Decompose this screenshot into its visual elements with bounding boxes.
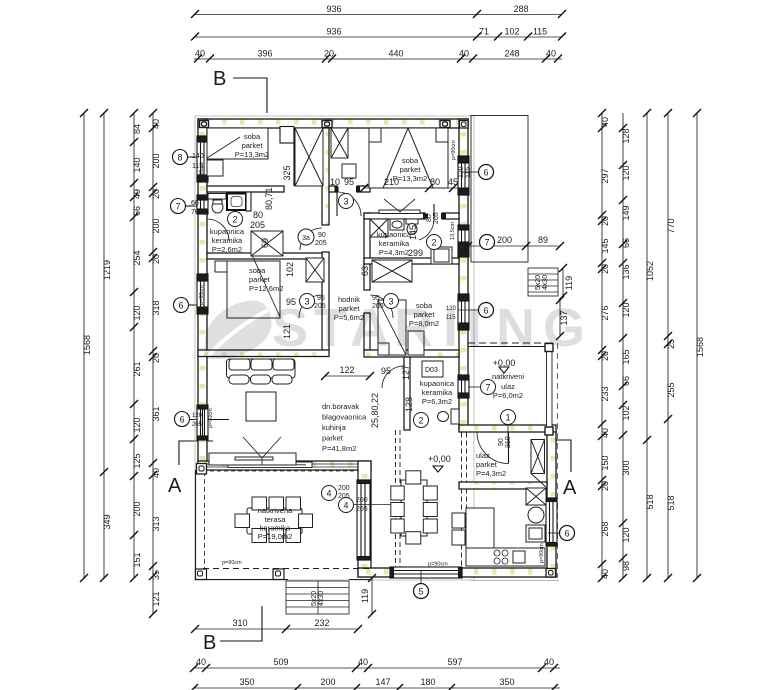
- svg-text:20: 20: [151, 189, 161, 199]
- wall soba3 bottom: [364, 350, 459, 357]
- svg-text:95: 95: [344, 177, 354, 187]
- svg-text:102: 102: [621, 405, 631, 420]
- svg-text:310: 310: [232, 618, 247, 628]
- nightstand soba12.6: [215, 261, 227, 272]
- svg-text:R: R: [394, 298, 433, 358]
- corner post top-right: [460, 121, 469, 129]
- svg-text:313: 313: [151, 516, 161, 531]
- svg-text:440: 440: [388, 49, 403, 59]
- dim row 350+200+147+180+350: [194, 687, 560, 689]
- window left W1: [197, 136, 208, 182]
- svg-text:parket: parket: [322, 434, 344, 443]
- svg-text:200: 200: [320, 677, 335, 687]
- svg-text:P=12,6m2: P=12,6m2: [249, 284, 283, 293]
- svg-text:40: 40: [151, 119, 161, 129]
- svg-text:232: 232: [314, 618, 329, 628]
- svg-text:120: 120: [621, 302, 631, 317]
- svg-text:ulaz: ulaz: [501, 382, 515, 391]
- wall bathroom2 bottom: [364, 258, 459, 264]
- svg-text:8: 8: [177, 153, 182, 163]
- dim row2 line 936+71+102+115: [194, 36, 562, 38]
- svg-text:120: 120: [132, 305, 142, 320]
- circle 2 bath1: [228, 212, 243, 227]
- dashed ceiling line dining: [395, 430, 397, 567]
- svg-text:3: 3: [343, 197, 348, 207]
- right chain col E 1568: [696, 113, 698, 578]
- svg-text:80: 80: [430, 177, 440, 187]
- dim 310+232: [195, 628, 358, 630]
- circle 4 pair with dims: [322, 486, 337, 501]
- svg-text:125: 125: [132, 453, 142, 468]
- svg-text:A: A: [168, 475, 182, 497]
- svg-text:145: 145: [600, 238, 610, 253]
- dim row3 line 40+396+20+440+40+248+40: [194, 58, 562, 60]
- window kitchen right: [546, 498, 557, 546]
- svg-text:66: 66: [191, 200, 199, 207]
- svg-text:115: 115: [192, 163, 203, 170]
- svg-text:1219: 1219: [102, 260, 112, 280]
- wardrobe X room2: [331, 128, 348, 158]
- svg-text:5x20: 5x20: [535, 275, 542, 290]
- dim 137 right: [556, 296, 564, 340]
- porch right thin wall: [547, 343, 553, 433]
- svg-text:349: 349: [102, 514, 112, 529]
- entry door arc: [477, 432, 509, 464]
- svg-text:261: 261: [132, 361, 142, 376]
- svg-text:kupaonica: kupaonica: [377, 230, 412, 239]
- circle 3 low-left: [300, 294, 315, 309]
- right chain col B segments: [622, 113, 624, 578]
- front door in right wall to porch: [458, 375, 469, 398]
- svg-text:P=6,0m2: P=6,0m2: [493, 391, 523, 400]
- svg-text:102: 102: [285, 262, 295, 277]
- svg-text:288: 288: [513, 4, 528, 14]
- svg-text:40: 40: [151, 468, 161, 478]
- svg-text:325: 325: [282, 165, 292, 180]
- svg-text:p=90cm: p=90cm: [199, 285, 205, 305]
- circle 1 porch: [501, 410, 516, 425]
- svg-text:597: 597: [447, 657, 462, 667]
- svg-text:P=4,3m2: P=4,3m2: [476, 469, 506, 478]
- svg-text:89: 89: [538, 235, 548, 245]
- svg-text:P=2,6m2: P=2,6m2: [212, 245, 242, 254]
- svg-text:3: 3: [388, 297, 393, 307]
- svg-text:25,80,22: 25,80,22: [370, 393, 380, 428]
- svg-text:76: 76: [191, 209, 199, 216]
- svg-text:205: 205: [192, 422, 203, 428]
- wall bath1-closet bottom: [207, 253, 322, 259]
- door 3a arc: [300, 228, 322, 250]
- svg-text:128: 128: [621, 128, 631, 143]
- wardrobe X soba12.6: [306, 258, 324, 282]
- wall soba12.6 bottom / living top: [198, 350, 329, 357]
- svg-text:80: 80: [253, 210, 263, 220]
- sink bath2: [390, 219, 404, 230]
- left chain segments col4: [152, 113, 154, 614]
- svg-text:P=41,8m2: P=41,8m2: [322, 444, 356, 453]
- terrace bottom slab edge: [203, 568, 371, 570]
- wall hodnik right vertical: [364, 213, 370, 290]
- svg-text:120: 120: [621, 165, 631, 180]
- toilet bath2: [406, 219, 418, 224]
- svg-text:20: 20: [600, 264, 610, 274]
- svg-text:6: 6: [483, 168, 488, 178]
- dining south window: [390, 567, 462, 578]
- svg-text:S: S: [272, 298, 308, 358]
- svg-text:+0,00: +0,00: [428, 454, 451, 464]
- corner post top-right: [440, 121, 450, 128]
- svg-text:115: 115: [533, 27, 547, 37]
- circle 3 door room2: [339, 194, 354, 209]
- svg-text:parket: parket: [249, 275, 271, 284]
- svg-text:254: 254: [132, 250, 142, 265]
- wardrobe X room1: [295, 128, 323, 186]
- svg-text:soba: soba: [244, 132, 261, 141]
- svg-text:127: 127: [401, 365, 411, 380]
- svg-text:151: 151: [132, 552, 142, 567]
- svg-text:119: 119: [564, 276, 574, 290]
- circle 7 porch leader: [481, 380, 496, 395]
- dim row 40+509+40+597+40: [194, 667, 560, 669]
- svg-text:2: 2: [431, 238, 436, 248]
- svg-text:1568: 1568: [82, 335, 92, 355]
- svg-text:936: 936: [326, 4, 341, 14]
- terrace-dining wall window: [357, 480, 370, 560]
- svg-text:66: 66: [132, 206, 142, 216]
- porch corner posts: [545, 344, 553, 352]
- roof overhang outline: [195, 116, 474, 580]
- terrace dashed boundary: [203, 470, 358, 472]
- watermark letters: [272, 298, 585, 358]
- window right R3: [458, 294, 469, 330]
- svg-text:66: 66: [621, 238, 631, 248]
- dining-ulaz dashed roofline: [461, 433, 463, 569]
- door arc hodnik-soba3: [370, 295, 393, 318]
- svg-text:136: 136: [621, 264, 631, 279]
- svg-text:soba: soba: [402, 156, 419, 165]
- svg-text:A: A: [350, 298, 389, 358]
- svg-text:200: 200: [497, 235, 512, 245]
- window left W2 small: [197, 195, 208, 214]
- sink kitchen: [513, 551, 525, 563]
- svg-text:205: 205: [315, 240, 327, 247]
- toilet bath3: [451, 409, 459, 424]
- svg-text:p=90cm: p=90cm: [451, 140, 457, 160]
- corner post top-left: [200, 121, 209, 128]
- svg-text:45: 45: [448, 177, 458, 187]
- svg-text:keramika: keramika: [379, 239, 410, 248]
- shower bath2: [370, 219, 388, 237]
- window left W3: [197, 274, 208, 314]
- svg-text:20: 20: [151, 254, 161, 264]
- svg-text:5x20: 5x20: [311, 591, 318, 606]
- left exterior wall: [198, 119, 207, 470]
- svg-text:kuhinja: kuhinja: [322, 423, 347, 432]
- svg-text:40: 40: [600, 428, 610, 438]
- washer D03: [422, 361, 443, 377]
- bed soba12.6: [227, 261, 280, 318]
- left chain segments col3: [133, 113, 135, 578]
- window left W4 living: [197, 405, 208, 440]
- south living-room wall band: [198, 461, 371, 470]
- coffee table: [246, 392, 276, 421]
- svg-text:299: 299: [408, 248, 423, 258]
- wall line room1 right: [293, 128, 295, 186]
- door arc bath2: [419, 219, 434, 240]
- svg-text:G: G: [543, 298, 585, 358]
- svg-text:936: 936: [326, 27, 341, 37]
- TV cabinet: [209, 453, 296, 465]
- svg-text:1052: 1052: [645, 261, 655, 281]
- bed room2: [369, 128, 448, 188]
- kitchen right exterior wall: [547, 430, 556, 577]
- svg-text:parket: parket: [400, 165, 422, 174]
- svg-text:268: 268: [600, 521, 610, 536]
- sliding glass doors south wall: [207, 462, 358, 468]
- svg-text:40: 40: [600, 117, 610, 127]
- svg-text:40: 40: [358, 657, 368, 667]
- side stairs right: [528, 268, 558, 296]
- right chain col D 770+25+255+518: [667, 113, 669, 578]
- circle 2 bath3: [414, 413, 429, 428]
- left chain total 1568: [83, 113, 85, 578]
- circle 6 kitchen right leader: [560, 526, 575, 541]
- wall bathroom1 top: [207, 186, 284, 192]
- svg-text:13,5cm: 13,5cm: [450, 222, 456, 240]
- wall hodnik left vertical: [322, 128, 329, 225]
- svg-text:200: 200: [338, 485, 350, 492]
- svg-text:3a: 3a: [302, 235, 310, 242]
- svg-text:248: 248: [504, 49, 519, 59]
- svg-text:350: 350: [239, 677, 254, 687]
- svg-text:180: 180: [420, 677, 435, 687]
- svg-text:40: 40: [459, 49, 469, 59]
- svg-text:396: 396: [257, 49, 272, 59]
- svg-text:7: 7: [484, 238, 489, 248]
- wall room2 bottom: [364, 213, 425, 219]
- window right R1: [458, 156, 469, 195]
- left window label circles: [171, 150, 230, 427]
- terrace left slab edge: [195, 470, 197, 580]
- dim 200+89 with circle7: [464, 242, 564, 250]
- svg-text:natkriveni: natkriveni: [492, 372, 524, 381]
- bottom exterior wall: [358, 568, 556, 577]
- svg-text:518: 518: [645, 494, 655, 509]
- svg-text:147: 147: [375, 677, 390, 687]
- svg-text:I: I: [467, 298, 482, 358]
- svg-text:509: 509: [273, 657, 288, 667]
- wardrobe X soba3: [372, 260, 412, 282]
- svg-text:6: 6: [178, 301, 183, 311]
- svg-text:90: 90: [318, 232, 326, 239]
- svg-text:4: 4: [343, 501, 348, 511]
- svg-text:69: 69: [260, 238, 270, 248]
- svg-text:p=90cm: p=90cm: [208, 408, 214, 428]
- svg-text:B: B: [203, 632, 216, 654]
- right exterior wall upper: [459, 119, 468, 430]
- circle 5 leader: [414, 584, 429, 599]
- svg-text:120: 120: [458, 166, 465, 178]
- right labels rotated colA: [600, 117, 610, 579]
- toilet bath1: [212, 201, 223, 213]
- svg-text:120: 120: [132, 417, 142, 432]
- svg-text:200: 200: [356, 497, 368, 504]
- window right R2 small: [458, 225, 469, 257]
- circle 6 right wall upper leader: [479, 165, 494, 180]
- svg-text:2: 2: [232, 215, 237, 225]
- svg-text:200: 200: [151, 218, 161, 233]
- svg-text:66: 66: [621, 376, 631, 386]
- svg-text:63: 63: [360, 266, 370, 276]
- svg-text:80,71: 80,71: [264, 187, 274, 210]
- porch overhang dashed line: [557, 343, 559, 578]
- svg-text:P=6,3m2: P=6,3m2: [422, 397, 452, 406]
- svg-text:205: 205: [250, 220, 265, 230]
- svg-text:119: 119: [360, 589, 370, 603]
- svg-text:40: 40: [546, 49, 556, 59]
- svg-text:35: 35: [151, 570, 161, 580]
- svg-text:205: 205: [356, 506, 368, 513]
- svg-text:40: 40: [544, 657, 554, 667]
- corner post living SW: [197, 464, 207, 475]
- circle 3 low-right: [384, 294, 399, 309]
- roof line rectangle right: [471, 116, 528, 263]
- porch top edge: [468, 342, 553, 344]
- svg-text:kupaonica: kupaonica: [420, 379, 455, 388]
- svg-text:318: 318: [151, 300, 161, 315]
- svg-text:140: 140: [132, 157, 142, 172]
- svg-text:120: 120: [621, 527, 631, 542]
- svg-text:150: 150: [600, 455, 610, 470]
- nightstand soba3: [408, 331, 424, 355]
- svg-text:10: 10: [330, 177, 340, 187]
- svg-text:1568: 1568: [695, 337, 705, 357]
- svg-text:p=90cm: p=90cm: [222, 560, 242, 566]
- sofa: [227, 359, 296, 384]
- terrace mid post: [273, 569, 284, 580]
- svg-text:20: 20: [324, 49, 334, 59]
- wall ulaz-kitchen horizontal: [459, 482, 547, 489]
- svg-text:25: 25: [666, 339, 676, 349]
- dim 119 bottom stairs: [368, 574, 376, 618]
- svg-text:6: 6: [179, 415, 184, 425]
- svg-text:6: 6: [564, 529, 569, 539]
- circle 3a: [298, 229, 314, 245]
- right chain col A segments: [601, 113, 603, 578]
- door arc room2: [337, 192, 361, 216]
- svg-text:D03: D03: [425, 367, 438, 374]
- svg-text:soba: soba: [249, 266, 266, 275]
- dim 119 right stairs: [559, 264, 567, 300]
- vanity shelf bath1: [208, 194, 226, 200]
- corner post mid-top: [322, 121, 332, 128]
- svg-text:20: 20: [600, 481, 610, 491]
- svg-text:20: 20: [600, 216, 610, 226]
- svg-text:518: 518: [666, 495, 676, 510]
- svg-text:90: 90: [498, 438, 505, 446]
- svg-text:T: T: [314, 298, 347, 358]
- svg-text:blagovaonica: blagovaonica: [322, 413, 367, 422]
- svg-text:parket: parket: [476, 460, 498, 469]
- svg-text:N: N: [496, 298, 535, 358]
- svg-text:350: 350: [499, 677, 514, 687]
- svg-text:p=90cm: p=90cm: [428, 562, 448, 568]
- terrace-dining separating wall: [358, 461, 371, 577]
- svg-text:P=19,0m2: P=19,0m2: [258, 532, 292, 541]
- side table room2: [342, 164, 356, 178]
- closet X hall: [251, 231, 283, 256]
- wall bathroom3 left: [404, 357, 410, 430]
- svg-text:natkrivena: natkrivena: [258, 506, 293, 515]
- svg-text:p=90cm: p=90cm: [539, 543, 545, 563]
- svg-text:49: 49: [132, 189, 142, 199]
- TV shelf room2: [379, 210, 420, 214]
- circle 2 bath2: [427, 235, 442, 250]
- svg-text:361: 361: [151, 406, 161, 421]
- svg-text:B: B: [213, 68, 226, 90]
- svg-text:165: 165: [621, 349, 631, 364]
- svg-text:P=4,3m2: P=4,3m2: [379, 248, 409, 257]
- svg-text:1: 1: [505, 413, 510, 423]
- svg-text:84: 84: [132, 124, 142, 134]
- svg-text:7: 7: [175, 202, 180, 212]
- tall unit X: [526, 488, 546, 505]
- svg-text:297: 297: [600, 168, 610, 183]
- svg-text:20: 20: [151, 353, 161, 363]
- svg-text:140: 140: [192, 153, 204, 160]
- door arc bath1: [207, 219, 229, 241]
- svg-text:6: 6: [483, 306, 488, 316]
- watermark overlay: [205, 298, 585, 359]
- duct box room1: [280, 127, 294, 144]
- svg-text:255: 255: [666, 382, 676, 397]
- top exterior wall: [198, 119, 468, 128]
- dim 122: [321, 372, 374, 380]
- ulaz wardrobe X: [531, 440, 546, 488]
- nightstand room1: [207, 160, 223, 176]
- svg-text:5: 5: [418, 587, 423, 597]
- fridge circle: [528, 507, 544, 523]
- svg-text:200: 200: [132, 501, 142, 516]
- oven box: [526, 525, 545, 542]
- hob circles: [494, 550, 508, 564]
- roof gray line bottom right: [471, 580, 559, 582]
- svg-text:71: 71: [479, 27, 489, 37]
- shower bath1: [227, 194, 246, 211]
- bed room1: [207, 128, 268, 159]
- dim 210 80 45 line: [360, 184, 468, 192]
- washer bath2: [431, 247, 452, 264]
- svg-text:kupaonica: kupaonica: [210, 227, 245, 236]
- bed soba3: [378, 300, 406, 355]
- svg-text:276: 276: [600, 305, 610, 320]
- right chain col C 1052+518: [646, 113, 648, 578]
- svg-text:210: 210: [384, 177, 399, 187]
- svg-text:80: 80: [426, 214, 433, 222]
- svg-text:200: 200: [151, 153, 161, 168]
- svg-text:102: 102: [504, 27, 519, 37]
- svg-text:dn.boravak: dn.boravak: [322, 402, 359, 411]
- circle 6 right wall lower leader: [479, 303, 494, 318]
- svg-text:149: 149: [621, 205, 631, 220]
- svg-text:2: 2: [418, 416, 423, 426]
- kitchen counter bottom: [466, 548, 545, 566]
- door arc hodnik-soba12.6: [299, 295, 322, 318]
- svg-text:770: 770: [666, 218, 676, 233]
- svg-text:121: 121: [151, 591, 161, 606]
- watermark leaf: [205, 301, 272, 360]
- svg-text:128: 128: [404, 397, 414, 412]
